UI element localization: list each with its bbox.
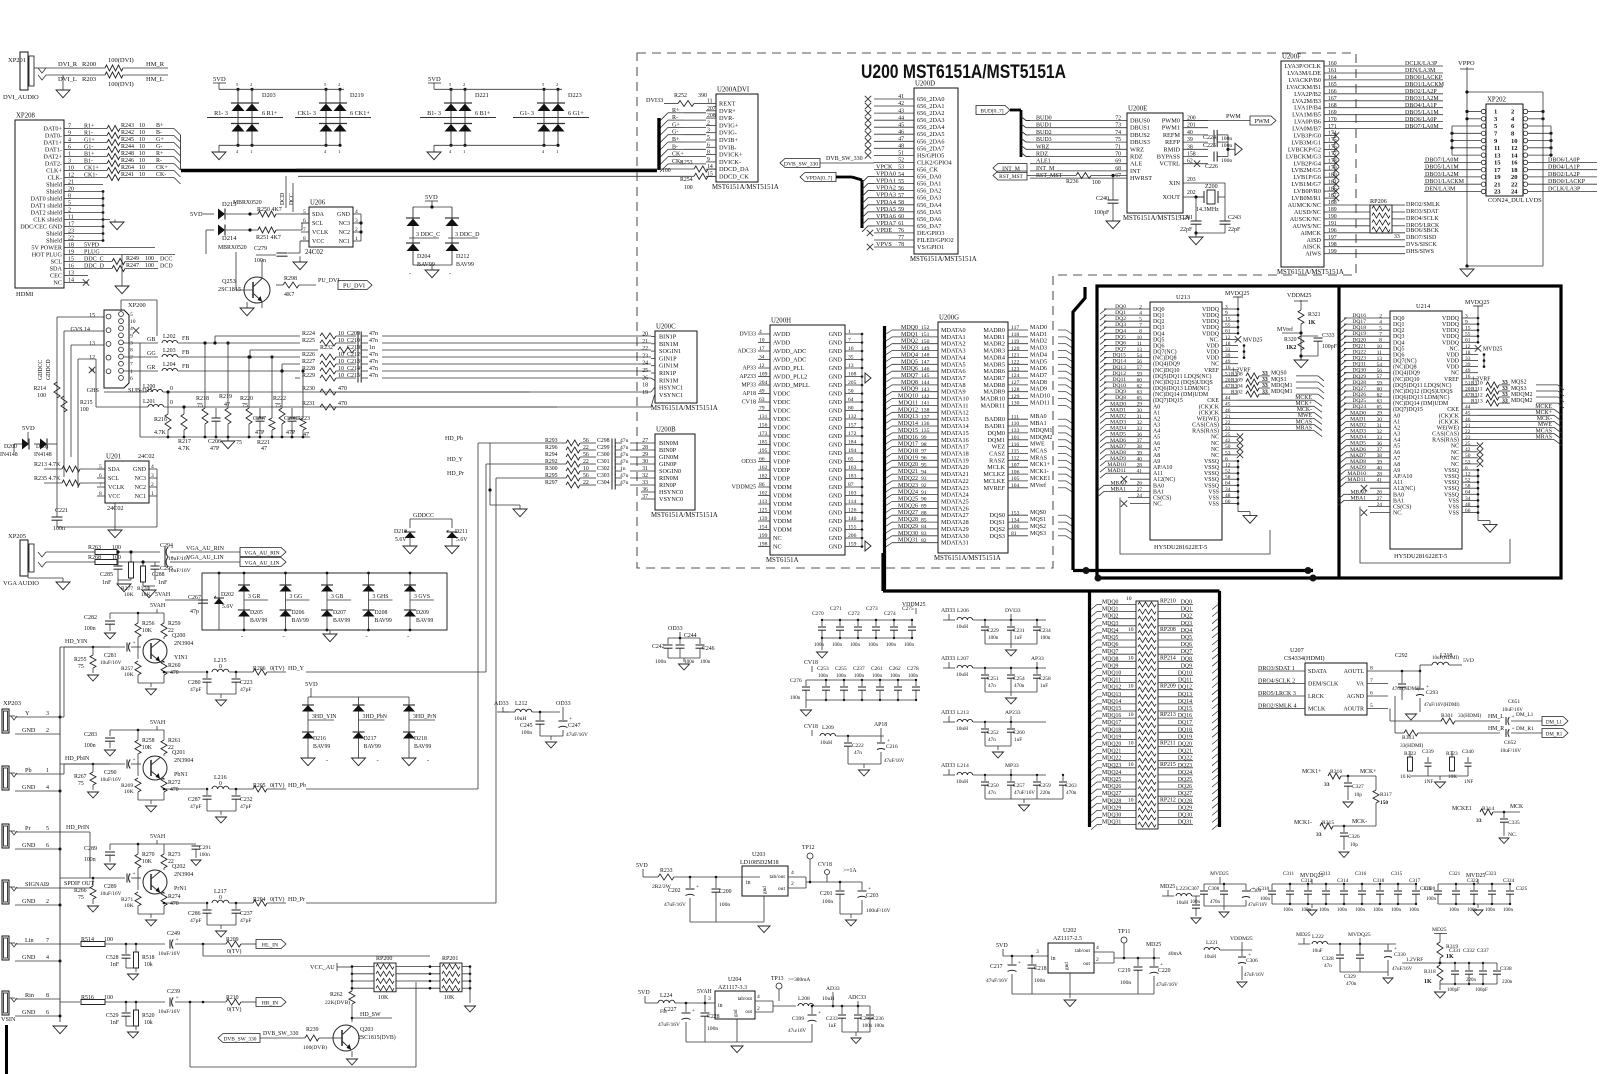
IC U200F: [1277, 54, 1344, 277]
svg-text:470n: 470n: [1346, 981, 1357, 987]
svg-text:CLK-: CLK-: [48, 175, 62, 182]
svg-text:DBO4/LA1P: DBO4/LA1P: [1405, 103, 1437, 109]
svg-text:DAT0 shield: DAT0 shield: [31, 196, 63, 203]
svg-text:C258: C258: [1039, 676, 1051, 682]
svg-text:B-: B-: [156, 130, 162, 136]
svg-text:XP208: XP208: [16, 113, 35, 120]
svg-text:GG: GG: [147, 351, 156, 357]
svg-text:126: 126: [848, 508, 857, 514]
svg-text:15: 15: [1494, 160, 1501, 167]
svg-text:NC: NC: [773, 544, 782, 551]
svg-text:47n: 47n: [1324, 963, 1332, 969]
ground: [240, 302, 254, 316]
svg-text:out: out: [1083, 961, 1090, 967]
svg-text:DBO0/LACKP: DBO0/LACKP: [1405, 75, 1443, 81]
svg-text:DQ1: DQ1: [1181, 607, 1192, 613]
svg-text:D223: D223: [568, 92, 582, 99]
svg-text:MDQ19: MDQ19: [1102, 734, 1121, 740]
svg-text:XP205: XP205: [8, 533, 26, 540]
transistor Q203 2SC1815(DVB): [326, 1025, 396, 1051]
svg-text:47uF/16V: 47uF/16V: [1244, 973, 1265, 978]
svg-text:C287: C287: [188, 797, 201, 803]
svg-text:C278: C278: [907, 666, 919, 672]
svg-text:57: 57: [898, 193, 904, 199]
svg-text:DDCD_DA: DDCD_DA: [719, 166, 750, 173]
svg-text:R256: R256: [142, 621, 155, 627]
svg-text:45: 45: [1225, 402, 1231, 408]
svg-text:OD33: OD33: [668, 626, 683, 632]
svg-text:DQ31: DQ31: [1178, 820, 1192, 826]
resistor R268 100: [46, 555, 160, 565]
svg-text:C227: C227: [664, 1007, 677, 1013]
svg-text:1K: 1K: [1446, 954, 1454, 960]
wire XP202 left: [1424, 110, 1481, 193]
svg-text:0(TV): 0(TV): [227, 1006, 242, 1013]
svg-text:DBUS0: DBUS0: [1130, 118, 1150, 125]
svg-text:OD33: OD33: [741, 459, 756, 465]
svg-text:CV18: CV18: [804, 724, 818, 730]
svg-text:6: 6: [1370, 691, 1373, 697]
diode D204 BAV99: [406, 207, 440, 268]
IC U200ADVI: [706, 87, 779, 192]
svg-text:100(DVI): 100(DVI): [108, 81, 134, 88]
svg-text:C311: C311: [1283, 871, 1294, 877]
svg-text:SDA: SDA: [50, 266, 63, 273]
svg-text:16: 16: [1465, 374, 1471, 380]
svg-text:31: 31: [642, 466, 648, 472]
svg-text:6 CK1+: 6 CK1+: [350, 110, 370, 117]
svg-text:13: 13: [89, 341, 95, 347]
svg-text:61: 61: [1465, 338, 1471, 344]
svg-text:VDD: VDD: [1206, 356, 1220, 362]
svg-text:VDDP: VDDP: [773, 459, 790, 466]
svg-text:HM_R: HM_R: [1488, 726, 1504, 732]
svg-text:C316: C316: [1355, 871, 1367, 877]
svg-text:28: 28: [642, 445, 648, 451]
svg-text:41: 41: [1377, 478, 1383, 484]
svg-text:C240: C240: [1096, 196, 1109, 202]
svg-text:AUWS/NC: AUWS/NC: [1292, 223, 1321, 230]
svg-text:RP200: RP200: [376, 956, 392, 962]
svg-text:152: 152: [921, 325, 930, 331]
svg-text:656_2DA0: 656_2DA0: [917, 96, 945, 103]
svg-text:1: 1: [46, 768, 49, 774]
svg-text:tab/out: tab/out: [738, 996, 753, 1002]
svg-text:195: 195: [759, 448, 768, 454]
svg-text:GND: GND: [133, 467, 147, 473]
resistor R247 100: [74, 263, 173, 271]
svg-text:RP210: RP210: [1160, 599, 1176, 605]
svg-text:L201: L201: [143, 399, 155, 405]
wire HOT PLUG: [74, 250, 175, 256]
svg-text:10K: 10K: [124, 672, 134, 678]
svg-text:CV18: CV18: [742, 400, 756, 406]
svg-text:MQS3: MQS3: [1030, 531, 1046, 537]
svg-text:C528: C528: [106, 955, 119, 961]
svg-text:MADR11: MADR11: [980, 403, 1005, 410]
svg-text:C290: C290: [104, 770, 117, 776]
resistor R321 1K: [1287, 293, 1321, 352]
svg-text:GND: GND: [829, 544, 843, 551]
svg-text:DM_R1: DM_R1: [1546, 732, 1563, 737]
net VSIN: [1, 1016, 16, 1074]
svg-text:Pr: Pr: [25, 825, 31, 832]
svg-text:FB: FB: [182, 364, 189, 370]
svg-text:MST6151A/MST5151A: MST6151A/MST5151A: [712, 184, 779, 191]
svg-text:WE(WE): WE(WE): [1197, 415, 1219, 422]
svg-text:CS(CS): CS(CS): [1153, 495, 1171, 502]
svg-text:98: 98: [921, 442, 927, 448]
inductor L207 row AP33: [941, 656, 1051, 704]
svg-text:87: 87: [848, 482, 854, 488]
svg-text:L202: L202: [163, 334, 176, 340]
svg-text:GND: GND: [829, 535, 843, 542]
resistor R213 4.7K: [34, 462, 105, 472]
diode D218 BAV99: [402, 697, 437, 766]
svg-text:DVB_SW_330: DVB_SW_330: [224, 1036, 257, 1042]
svg-text:GND: GND: [829, 348, 843, 355]
svg-text:R244: R244: [121, 144, 134, 150]
capacitor C267 47p: [188, 595, 208, 615]
svg-text:100: 100: [684, 185, 693, 191]
svg-text:C232: C232: [240, 797, 253, 803]
svg-text:10: 10: [139, 172, 145, 178]
svg-text:20: 20: [1511, 174, 1518, 181]
svg-text:6: 6: [1465, 465, 1468, 471]
svg-text:7: 7: [848, 338, 851, 344]
svg-text:C260: C260: [1013, 730, 1025, 736]
svg-text:656_2DA1: 656_2DA1: [917, 103, 945, 110]
svg-text:100n: 100n: [1190, 900, 1201, 905]
svg-text:+: +: [176, 937, 179, 943]
svg-text:DBO6/LA0P: DBO6/LA0P: [1548, 157, 1580, 163]
svg-text:DQ6: DQ6: [1181, 642, 1192, 648]
svg-text:MCK1+: MCK1+: [1302, 769, 1321, 775]
svg-text:C257: C257: [1013, 783, 1025, 789]
resistor R218 75: [196, 341, 209, 437]
diode D216 BAV99: [301, 697, 337, 766]
svg-text:70: 70: [1115, 152, 1121, 158]
svg-text:47pF: 47pF: [190, 918, 202, 924]
ground: [1294, 354, 1308, 367]
svg-text:MWE: MWE: [1538, 422, 1553, 428]
diode D210 5.6V: [394, 519, 417, 554]
svg-text:10K: 10K: [142, 859, 153, 865]
svg-text:D212: D212: [456, 254, 469, 260]
svg-text:MDQM2: MDQM2: [1511, 398, 1533, 404]
svg-text:5VAH: 5VAH: [150, 720, 166, 726]
svg-text:75: 75: [78, 895, 84, 901]
svg-text:CKE: CKE: [1207, 398, 1219, 404]
svg-text:MCKE: MCKE: [1535, 404, 1552, 410]
svg-text:1: 1: [338, 149, 340, 154]
svg-text:110: 110: [1011, 421, 1019, 427]
svg-text:39: 39: [1225, 353, 1231, 359]
svg-text:10: 10: [1128, 712, 1134, 718]
resistor R252 390: [646, 93, 707, 107]
svg-text:VPDA0: VPDA0: [876, 171, 896, 178]
svg-text:156: 156: [759, 423, 768, 429]
svg-text:5: 5: [68, 201, 71, 207]
svg-text:22pF: 22pF: [1228, 227, 1241, 233]
svg-text:100n: 100n: [1120, 980, 1131, 986]
regulator U202 AZ1117-2.5: [986, 928, 1182, 1007]
svg-text:RAS(RAS): RAS(RAS): [1432, 437, 1459, 444]
svg-text:(DQ5)DQ11 LDQS(NC): (DQ5)DQ11 LDQS(NC): [1393, 382, 1452, 389]
svg-text:47n: 47n: [620, 452, 629, 458]
svg-text:CS4334(HDMI): CS4334(HDMI): [1284, 655, 1325, 662]
svg-text:100n: 100n: [890, 674, 901, 679]
svg-text:12: 12: [759, 363, 765, 369]
svg-text:140: 140: [848, 516, 857, 522]
net flag RST_MST: [993, 171, 1027, 180]
svg-text:26: 26: [1137, 481, 1143, 487]
svg-text:L204: L204: [163, 362, 176, 368]
svg-text:D203: D203: [262, 92, 276, 99]
svg-text:100n: 100n: [1319, 908, 1330, 913]
svg-text:HD_PrIN: HD_PrIN: [66, 825, 90, 831]
svg-text:22K(DVB): 22K(DVB): [325, 999, 350, 1006]
svg-text:41: 41: [898, 94, 904, 100]
svg-text:201: 201: [1187, 123, 1196, 129]
svg-text:171: 171: [1328, 124, 1337, 130]
inductor L201 0: [96, 359, 557, 407]
svg-text:196: 196: [1328, 228, 1337, 234]
svg-text:VSSQ: VSSQ: [1444, 468, 1460, 474]
svg-text:15: 15: [68, 257, 74, 263]
svg-text:LVB3M/G1: LVB3M/G1: [1291, 139, 1321, 146]
svg-text:117: 117: [1011, 325, 1019, 331]
svg-text:26: 26: [1377, 490, 1383, 496]
svg-text:(CK)CK: (CK)CK: [1199, 403, 1220, 410]
svg-text:C243: C243: [1228, 215, 1241, 221]
svg-text:44: 44: [898, 115, 904, 121]
resistor R242 10: [74, 130, 174, 138]
svg-text:MD25: MD25: [1146, 942, 1161, 948]
svg-text:R243: R243: [121, 123, 134, 129]
svg-text:132: 132: [848, 414, 857, 420]
svg-text:C340: C340: [1462, 749, 1474, 755]
svg-text:7: 7: [303, 227, 306, 233]
svg-text:RAS(RAS): RAS(RAS): [1192, 428, 1219, 435]
svg-text:75: 75: [236, 440, 242, 446]
svg-text:100n: 100n: [814, 643, 825, 648]
svg-text:-: -: [377, 757, 379, 764]
svg-text:(CK)CK: (CK)CK: [1439, 412, 1460, 419]
svg-text:20: 20: [68, 187, 74, 193]
svg-text:VS/GPIO1: VS/GPIO1: [917, 244, 944, 251]
svg-text:BA0: BA0: [1153, 483, 1164, 489]
svg-text:3 DDC_D: 3 DDC_D: [455, 232, 480, 238]
svg-text:tab/out: tab/out: [769, 874, 785, 880]
svg-text:GND: GND: [829, 425, 843, 432]
svg-text:100n: 100n: [854, 674, 865, 679]
svg-text:C200: C200: [719, 889, 732, 895]
svg-text:6: 6: [46, 1010, 49, 1016]
svg-text:149: 149: [921, 346, 930, 352]
svg-text:DM_L1: DM_L1: [1546, 720, 1563, 725]
svg-text:+: +: [133, 757, 136, 763]
svg-text:XIN: XIN: [1169, 180, 1181, 187]
svg-text:131: 131: [759, 414, 768, 420]
thick bus RP210 bracket: [883, 553, 1220, 827]
IC U200D: [865, 81, 977, 264]
svg-text:52: 52: [898, 158, 904, 164]
thick DVI bus: [181, 169, 657, 172]
svg-text:IN4148: IN4148: [0, 452, 18, 458]
svg-text:39: 39: [1187, 137, 1193, 143]
svg-text:VDDC: VDDC: [773, 416, 791, 423]
svg-text:4: 4: [1379, 320, 1382, 326]
svg-text:MAD6: MAD6: [1030, 366, 1047, 372]
svg-text:5.6V: 5.6V: [222, 604, 234, 610]
svg-text:C321: C321: [1449, 871, 1461, 877]
svg-text:REFP: REFP: [1165, 139, 1181, 146]
svg-text:13: 13: [68, 271, 74, 277]
ground: [427, 145, 558, 159]
svg-text:LD1085D2M18: LD1085D2M18: [740, 860, 779, 866]
svg-text:RP214: RP214: [1160, 655, 1176, 661]
svg-text:656_2DA2: 656_2DA2: [917, 110, 945, 117]
svg-text:22pF: 22pF: [1180, 227, 1193, 233]
svg-text:(NC)DQ12 (DQS)UDQS: (NC)DQ12 (DQS)UDQS: [1153, 379, 1213, 386]
svg-text:15: 15: [89, 313, 95, 319]
svg-text:RIN0P: RIN0P: [659, 482, 677, 489]
resistor R215 100: [61, 396, 93, 413]
svg-text:DQ17: DQ17: [1178, 720, 1192, 726]
svg-text:Shield: Shield: [46, 182, 63, 189]
resistor pack RP201 10K: [440, 956, 476, 1012]
svg-text:REXT: REXT: [719, 101, 736, 108]
svg-text:MCK+: MCK+: [1536, 410, 1552, 416]
wire video lines to U200C: [302, 331, 651, 383]
svg-text:55: 55: [1465, 332, 1471, 338]
svg-text:(NC)DQ10: (NC)DQ10: [1393, 376, 1420, 383]
transistor Q253 2SC1815: [218, 252, 270, 303]
svg-text:2: 2: [355, 227, 358, 233]
svg-text:gnd: gnd: [762, 886, 768, 894]
svg-text:DEN/LA3M: DEN/LA3M: [1425, 187, 1456, 193]
svg-text:C234: C234: [1039, 628, 1051, 634]
svg-text:HSYNC1: HSYNC1: [659, 385, 683, 392]
svg-text:100n: 100n: [868, 643, 879, 648]
svg-text:21: 21: [68, 180, 74, 186]
svg-text:MCLK: MCLK: [1308, 707, 1326, 713]
svg-text:VGA AUDIO: VGA AUDIO: [3, 580, 39, 587]
transistor Q201 stage HD_Pb: [60, 443, 478, 823]
svg-text:HD_YIN: HD_YIN: [65, 639, 88, 645]
svg-text:3: 3: [1465, 313, 1468, 319]
svg-text:VDDM25: VDDM25: [732, 485, 756, 491]
svg-text:DAT0+: DAT0+: [43, 126, 62, 133]
svg-text:(NC)DQ10: (NC)DQ10: [1153, 367, 1180, 374]
svg-text:MQS2: MQS2: [1030, 524, 1046, 530]
svg-text:44: 44: [1465, 405, 1471, 411]
svg-text:R312: R312: [1471, 392, 1483, 398]
svg-text:R273: R273: [168, 852, 181, 858]
svg-text:C201: C201: [820, 891, 833, 897]
power 5VD: [413, 194, 452, 209]
svg-text:DQ10: DQ10: [1178, 671, 1192, 677]
svg-text:100n: 100n: [1426, 897, 1437, 902]
svg-text:1: 1: [250, 149, 252, 154]
svg-text:4: 4: [759, 329, 762, 335]
svg-text:VDDC: VDDC: [773, 450, 791, 457]
wire GDDCC column: [57, 317, 104, 488]
jack Lin/GND: [2, 936, 60, 961]
svg-text:100n: 100n: [1260, 897, 1271, 902]
svg-text:100n: 100n: [1301, 908, 1312, 913]
svg-text:U206: U206: [310, 200, 326, 207]
svg-text:100n: 100n: [1409, 908, 1420, 913]
capacitor row MVD25 C321-C324: [1424, 871, 1528, 916]
svg-text:47P: 47P: [286, 430, 296, 436]
svg-text:C222: C222: [852, 743, 864, 749]
svg-text:33: 33: [642, 480, 648, 486]
svg-text:MDQ17: MDQ17: [1102, 720, 1121, 726]
svg-text:R310: R310: [1471, 380, 1483, 386]
svg-text:47: 47: [261, 446, 267, 452]
svg-text:3 DDC_C: 3 DDC_C: [416, 232, 440, 238]
svg-text:DVI_L: DVI_L: [58, 76, 77, 83]
svg-text:LVA2P/B2: LVA2P/B2: [1294, 91, 1321, 98]
svg-text:LVA3P/OCLK: LVA3P/OCLK: [1285, 63, 1322, 70]
svg-text:PWM: PWM: [1226, 113, 1241, 120]
svg-text:10uF/16V: 10uF/16V: [100, 660, 122, 666]
svg-text:C223: C223: [240, 680, 253, 686]
svg-text:107: 107: [1011, 462, 1020, 468]
svg-text:CS(CS): CS(CS): [1393, 504, 1411, 511]
resistor R516 row HR_IN: [60, 989, 286, 1038]
svg-text:VGA_AU_RIN: VGA_AU_RIN: [244, 550, 279, 556]
resistor R320 1K2: [1277, 326, 1304, 360]
svg-text:A2: A2: [1393, 425, 1400, 431]
svg-text:10uF/16V: 10uF/16V: [100, 891, 122, 897]
svg-text:MCKE1: MCKE1: [1030, 476, 1050, 482]
svg-text:NC2: NC2: [135, 485, 146, 491]
svg-text:125: 125: [759, 508, 768, 514]
svg-text:C302: C302: [597, 466, 610, 472]
svg-text:DVB_SW_330: DVB_SW_330: [826, 156, 863, 162]
svg-text:47uF/16V: 47uF/16V: [986, 978, 1008, 984]
svg-text:1n: 1n: [369, 345, 375, 351]
svg-text:C236: C236: [872, 1016, 884, 1022]
svg-text:C276: C276: [790, 678, 802, 684]
svg-text:RP209: RP209: [1160, 684, 1176, 690]
svg-text:VDDQ: VDDQ: [1202, 313, 1220, 319]
svg-text:R292: R292: [545, 459, 558, 465]
svg-text:INT: INT: [1130, 168, 1141, 175]
svg-text:16: 16: [1511, 160, 1518, 167]
svg-text:DQ7(NC): DQ7(NC): [1393, 358, 1417, 365]
svg-text:R230: R230: [302, 386, 315, 392]
svg-text:D216: D216: [313, 736, 326, 742]
svg-text:1uF: 1uF: [828, 1023, 836, 1029]
svg-text:164: 164: [1328, 75, 1337, 81]
svg-text:10: 10: [139, 165, 145, 171]
svg-text:NC: NC: [1451, 371, 1459, 377]
svg-text:SCL: SCL: [51, 259, 63, 266]
svg-text:134: 134: [1011, 517, 1020, 523]
svg-text:C324: C324: [1503, 878, 1515, 884]
svg-text:3: 3: [68, 159, 71, 165]
svg-text:C273: C273: [866, 606, 878, 612]
svg-text:AP/A10: AP/A10: [1393, 474, 1412, 480]
svg-text:R302: R302: [1231, 390, 1243, 396]
svg-text:R308: R308: [1231, 371, 1243, 377]
svg-text:56: 56: [1377, 368, 1383, 374]
svg-text:AUMCK/NC: AUMCK/NC: [1288, 202, 1321, 209]
